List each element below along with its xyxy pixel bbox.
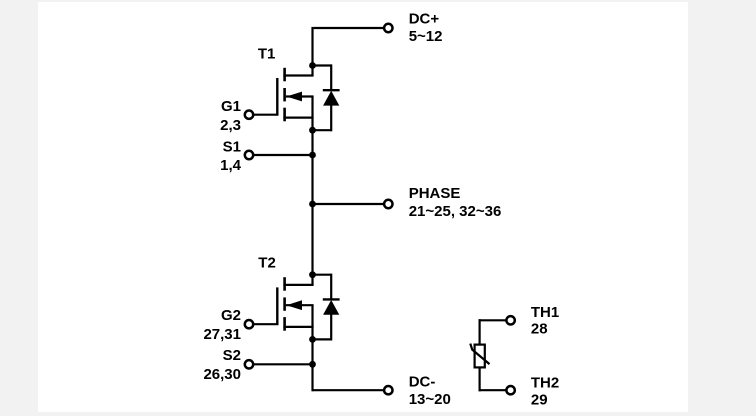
wire: bus T1 source to PHASE	[311, 130, 313, 204]
wire: PHASE lead	[313, 203, 385, 205]
svg-text:TH1: TH1	[531, 304, 559, 321]
transistor T2: source lead	[283, 305, 313, 339]
terminal DC-	[384, 386, 392, 394]
svg-text:T1: T1	[258, 45, 276, 62]
wire: DC+ vertical drop to T1 drain	[311, 27, 313, 66]
svg-text:26,30: 26,30	[203, 366, 241, 383]
node: T2 drain junction	[309, 271, 316, 278]
terminal G2	[245, 320, 253, 328]
node: T2 source junction	[309, 336, 316, 343]
svg-text:29: 29	[531, 391, 548, 408]
terminal S2	[245, 360, 253, 368]
wire: S2 lead	[253, 363, 313, 365]
wire: G1 gate lead	[253, 114, 279, 116]
svg-text:S1: S1	[223, 138, 241, 155]
node: S1 junction	[309, 152, 316, 159]
transistor T2: channel bars	[283, 277, 286, 331]
wire: S1 lead	[253, 154, 313, 156]
wire: TH2 horizontal lead	[479, 389, 507, 391]
svg-text:DC-: DC-	[409, 373, 436, 390]
terminal TH2	[506, 386, 514, 394]
svg-text:21~25, 32~36: 21~25, 32~36	[409, 203, 502, 220]
svg-text:T2: T2	[258, 255, 276, 272]
wire: G2 gate lead	[253, 323, 279, 325]
terminal DC+	[384, 24, 392, 32]
svg-text:DC+: DC+	[409, 11, 440, 28]
svg-text:G1: G1	[221, 98, 241, 115]
node: S2 junction	[309, 361, 316, 368]
diode D2 (body diode of T2)	[313, 274, 340, 341]
svg-text:5~12: 5~12	[409, 28, 443, 45]
svg-text:13~20: 13~20	[409, 391, 451, 408]
svg-text:G2: G2	[221, 307, 241, 324]
transistor T2: body arrow shaft	[286, 304, 314, 306]
wire: TH1 horizontal lead	[479, 319, 507, 321]
transistor T1: source lead	[283, 97, 313, 131]
wire: bus T2 source to S2	[311, 339, 313, 364]
svg-text:S2: S2	[223, 347, 241, 364]
transistor T1: gate bar	[276, 78, 278, 115]
svg-text:28: 28	[531, 321, 548, 338]
transistor T1: body arrow head	[286, 92, 302, 102]
transistor Q T1: drain lead	[283, 66, 313, 76]
node: T1 drain junction	[309, 62, 316, 69]
svg-text:27,31: 27,31	[203, 326, 241, 343]
wire: bus S2 down to DC- corner	[311, 364, 313, 391]
terminal TH1	[506, 316, 514, 324]
transistor T2: gate bar	[276, 287, 278, 324]
diode D1 (body diode of T1)	[313, 64, 340, 131]
svg-text:TH2: TH2	[531, 375, 559, 392]
node: PHASE junction	[309, 201, 316, 208]
wire: thermistor top lead	[479, 319, 481, 345]
wire: bus PHASE to T2 drain	[311, 204, 313, 275]
terminal S1	[245, 151, 253, 159]
wire: thermistor bottom lead	[479, 367, 481, 391]
node: T1 source junction	[309, 127, 316, 134]
thermistor RT body	[475, 345, 485, 368]
transistor T1: body arrow shaft	[286, 95, 314, 97]
svg-text:2,3: 2,3	[220, 117, 241, 134]
terminal PHASE	[384, 200, 392, 208]
thermistor RT strike line	[470, 344, 489, 365]
transistor T2: drain lead	[283, 275, 313, 285]
transistor T2: body arrow head	[286, 300, 302, 310]
terminal G1	[245, 111, 253, 119]
svg-text:1,4: 1,4	[220, 157, 242, 174]
transistor T1: channel bars	[283, 68, 286, 122]
wire: DC+ horizontal lead	[314, 27, 384, 29]
wire: DC- horizontal lead	[313, 389, 385, 391]
svg-text:PHASE: PHASE	[409, 185, 461, 202]
